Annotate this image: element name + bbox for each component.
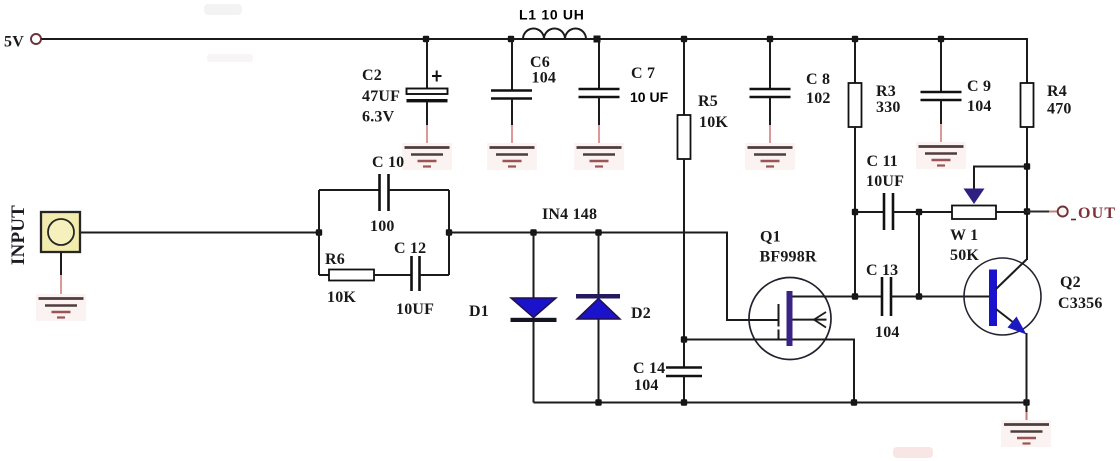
svg-text:R5: R5 xyxy=(698,93,718,110)
svg-text:10UF: 10UF xyxy=(396,301,434,318)
svg-text:10K: 10K xyxy=(327,289,356,306)
resistor R5 xyxy=(678,40,691,340)
svg-text:OUT: OUT xyxy=(1078,205,1116,222)
svg-text:47UF: 47UF xyxy=(362,88,400,105)
node rail D2 xyxy=(595,399,601,405)
transistor Q1 BF998R xyxy=(749,278,831,360)
capacitor C6 xyxy=(491,40,532,147)
wire C11 right down xyxy=(918,212,920,297)
node L1 left / C6 xyxy=(508,36,514,42)
node rail Q1 source xyxy=(851,399,857,405)
svg-text:104: 104 xyxy=(875,324,900,341)
svg-text:R6: R6 xyxy=(325,251,345,268)
node R3 top xyxy=(852,36,858,42)
svg-text:Q1: Q1 xyxy=(760,229,781,246)
svg-text:102: 102 xyxy=(806,90,831,107)
faint artifact top-left xyxy=(204,4,242,15)
svg-text:104: 104 xyxy=(634,377,659,394)
node D2 top xyxy=(595,229,601,235)
svg-text:L1 10 UH: L1 10 UH xyxy=(519,7,585,23)
wire input line xyxy=(80,232,319,234)
potentiometer W1 xyxy=(919,206,1027,220)
ground C6 xyxy=(487,143,537,170)
wire bottom ground rail xyxy=(534,402,1027,404)
node R4/OUT xyxy=(1024,208,1030,214)
wire block left vertical xyxy=(318,190,320,275)
node rail C14 xyxy=(681,399,687,405)
svg-text:104: 104 xyxy=(967,98,992,115)
svg-text:R3: R3 xyxy=(876,83,896,100)
svg-text:INPUT: INPUT xyxy=(8,205,29,265)
wire signal line to Q1 xyxy=(449,233,779,321)
node R4/wiper xyxy=(1024,163,1030,169)
faint artifact mid-left xyxy=(207,54,253,62)
wire Q2 gnd stem xyxy=(1026,403,1028,425)
transistor Q2 C3356 xyxy=(964,258,1041,403)
svg-text:50K: 50K xyxy=(950,247,979,264)
capacitor C11 xyxy=(855,193,919,230)
5V terminal xyxy=(4,34,41,51)
node R5/C14/source xyxy=(681,336,687,342)
svg-text:C3356: C3356 xyxy=(1058,295,1103,312)
ground C8 xyxy=(745,143,795,170)
svg-text:C 10: C 10 xyxy=(372,154,404,171)
wire block right vertical xyxy=(448,190,450,275)
svg-text:100: 100 xyxy=(370,218,395,235)
node C11 left xyxy=(852,209,858,215)
capacitor C8 xyxy=(750,40,791,147)
svg-text:10UF: 10UF xyxy=(866,173,904,190)
capacitor C7 xyxy=(579,40,620,147)
faint artifact bottom-right xyxy=(893,447,933,458)
svg-text:470: 470 xyxy=(1047,101,1072,118)
svg-text:C 7: C 7 xyxy=(631,65,655,82)
svg-text:IN4 148: IN4 148 xyxy=(542,206,597,223)
ground input xyxy=(36,294,86,321)
ground C9 xyxy=(916,142,966,169)
svg-text:Q2: Q2 xyxy=(1060,274,1081,291)
wire W1 wiper xyxy=(974,167,1027,190)
node block left xyxy=(316,229,322,235)
svg-text:5V: 5V xyxy=(4,34,24,51)
wire top power rail xyxy=(42,38,1028,40)
svg-text:C 9: C 9 xyxy=(967,78,991,95)
input connector J1 xyxy=(41,212,80,252)
svg-text:D2: D2 xyxy=(631,305,651,322)
capacitor C9 xyxy=(921,40,962,146)
wire input gnd stem xyxy=(60,252,62,298)
ground C2 xyxy=(402,143,452,170)
svg-text:104: 104 xyxy=(532,70,557,87)
resistor R6 xyxy=(319,270,412,281)
node D1 top xyxy=(530,229,536,235)
node C11 right xyxy=(916,209,922,215)
ground C7 xyxy=(574,143,624,170)
node C8 top xyxy=(767,36,773,42)
resistor R4 xyxy=(1021,38,1034,260)
svg-text:10K: 10K xyxy=(699,114,728,131)
wire Q1 drain xyxy=(793,296,856,298)
node rail Q2 emitter xyxy=(1023,399,1029,405)
svg-text:C 13: C 13 xyxy=(866,262,898,279)
capacitor C2 (electrolytic) xyxy=(407,40,448,147)
resistor R3 xyxy=(849,40,862,297)
inductor L1 xyxy=(511,29,593,39)
W1 wiper arrow xyxy=(964,189,985,205)
svg-text:6.3V: 6.3V xyxy=(362,109,395,126)
svg-text:D1: D1 xyxy=(469,303,489,320)
ground Q2 xyxy=(1001,420,1051,447)
wire Q1 source right xyxy=(793,340,855,403)
node Q1 drain xyxy=(852,293,858,299)
node block right xyxy=(446,229,452,235)
svg-text:C6: C6 xyxy=(530,54,550,71)
svg-text:BF998R: BF998R xyxy=(760,249,817,266)
node L1 right / C7 xyxy=(594,36,601,43)
node C2 top xyxy=(423,36,429,42)
capacitor C12 xyxy=(412,256,450,291)
capacitor C14 xyxy=(666,340,702,403)
svg-text:C2: C2 xyxy=(362,67,382,84)
diode D2 xyxy=(576,233,620,403)
svg-text:W 1: W 1 xyxy=(950,227,978,244)
svg-text:C 14: C 14 xyxy=(633,360,665,377)
OUT terminal xyxy=(1027,205,1116,222)
svg-text:R4: R4 xyxy=(1047,83,1067,100)
svg-text:C 12: C 12 xyxy=(394,240,426,257)
svg-text:330: 330 xyxy=(876,99,901,116)
svg-text:10 UF: 10 UF xyxy=(630,89,669,105)
node R5 top xyxy=(681,36,687,42)
wire Q1 source left xyxy=(684,339,787,341)
svg-text:C 11: C 11 xyxy=(867,153,898,170)
capacitor C10 xyxy=(319,174,449,211)
node Q2 base line xyxy=(916,293,922,299)
node C9 top xyxy=(938,36,944,42)
diode D1 xyxy=(511,233,557,403)
capacitor C13 xyxy=(792,277,990,316)
svg-text:C 8: C 8 xyxy=(806,71,830,88)
